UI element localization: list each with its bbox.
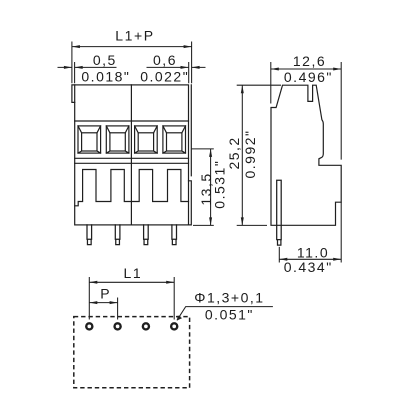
L1+P extension lines — [72, 42, 192, 84]
front view castellated wave — [75, 170, 189, 206]
svg-text:L1+P: L1+P — [115, 28, 155, 44]
P extension line right — [117, 298, 119, 320]
L1 extension lines — [89, 277, 174, 320]
arrows 0,6 — [181, 66, 189, 69]
side view pin — [277, 180, 282, 245]
hole H3 — [143, 323, 149, 329]
window W1 pole 1 — [78, 126, 101, 153]
front view center divider — [130, 85, 132, 225]
L1+P dimension line — [72, 46, 192, 48]
svg-text:0.434": 0.434" — [284, 259, 333, 275]
front view clamp row bottom line — [75, 157, 189, 159]
hole H1 — [86, 323, 92, 329]
side view profile — [271, 85, 341, 225]
0,5 dimension lines — [58, 66, 117, 68]
P dimension line — [89, 302, 117, 304]
svg-text:12,6: 12,6 — [293, 53, 326, 69]
window W4 pole 4 — [163, 126, 186, 153]
11,0 extension lines — [279, 202, 341, 262]
arrows 11,0 — [279, 258, 287, 261]
front view left interlock tab — [72, 85, 75, 103]
front view body outline — [75, 85, 189, 225]
front view right outer wall line — [189, 85, 192, 225]
leader arrowhead — [177, 315, 182, 320]
0,6 dimension lines — [147, 66, 206, 68]
front view clamp row top line — [75, 120, 189, 122]
pin F4 — [172, 225, 177, 245]
25,2 dimension line — [241, 85, 243, 225]
svg-text:0,5: 0,5 — [93, 52, 117, 68]
svg-text:L1: L1 — [124, 265, 143, 281]
13,5 dimension line — [210, 149, 212, 226]
svg-text:0.496": 0.496" — [284, 69, 333, 85]
hole H2 — [115, 323, 121, 329]
footprint dashed outline — [74, 317, 190, 388]
arrows L1+P — [72, 45, 80, 48]
svg-text:25,2: 25,2 — [226, 136, 242, 169]
L1 dimension line — [89, 281, 174, 283]
svg-text:0,6: 0,6 — [153, 52, 177, 68]
hole H4 — [171, 323, 177, 329]
25,2 extension lines — [237, 85, 281, 225]
pin F2 — [115, 225, 120, 245]
pin F1 — [87, 225, 92, 245]
svg-text:P: P — [100, 285, 111, 301]
arrows 0,5 — [64, 66, 72, 69]
window W2 pole 2 — [106, 126, 129, 153]
front view lower rib line — [75, 162, 189, 164]
arrows 25,2 — [241, 85, 244, 93]
svg-text:0.018": 0.018" — [81, 69, 130, 85]
arrows P — [89, 301, 97, 304]
svg-text:0.992": 0.992" — [242, 129, 258, 178]
11,0 dimension line — [279, 258, 341, 260]
svg-text:Φ1,3+0,1: Φ1,3+0,1 — [194, 289, 264, 305]
0,5 / 0,6 inner extension lines — [75, 62, 189, 83]
window W3 pole 3 — [135, 126, 158, 153]
13,5 extension lines — [192, 149, 214, 226]
12,6 dimension line — [271, 68, 341, 70]
leader line to hole 4 — [177, 307, 273, 321]
12,6 extension lines — [271, 62, 341, 160]
arrows 12,6 — [271, 68, 279, 71]
svg-text:0.022": 0.022" — [140, 69, 189, 85]
pin F3 — [144, 225, 149, 245]
arrows 13,5 — [209, 149, 212, 157]
svg-text:0.051": 0.051" — [205, 307, 254, 323]
arrows L1 — [89, 281, 97, 284]
